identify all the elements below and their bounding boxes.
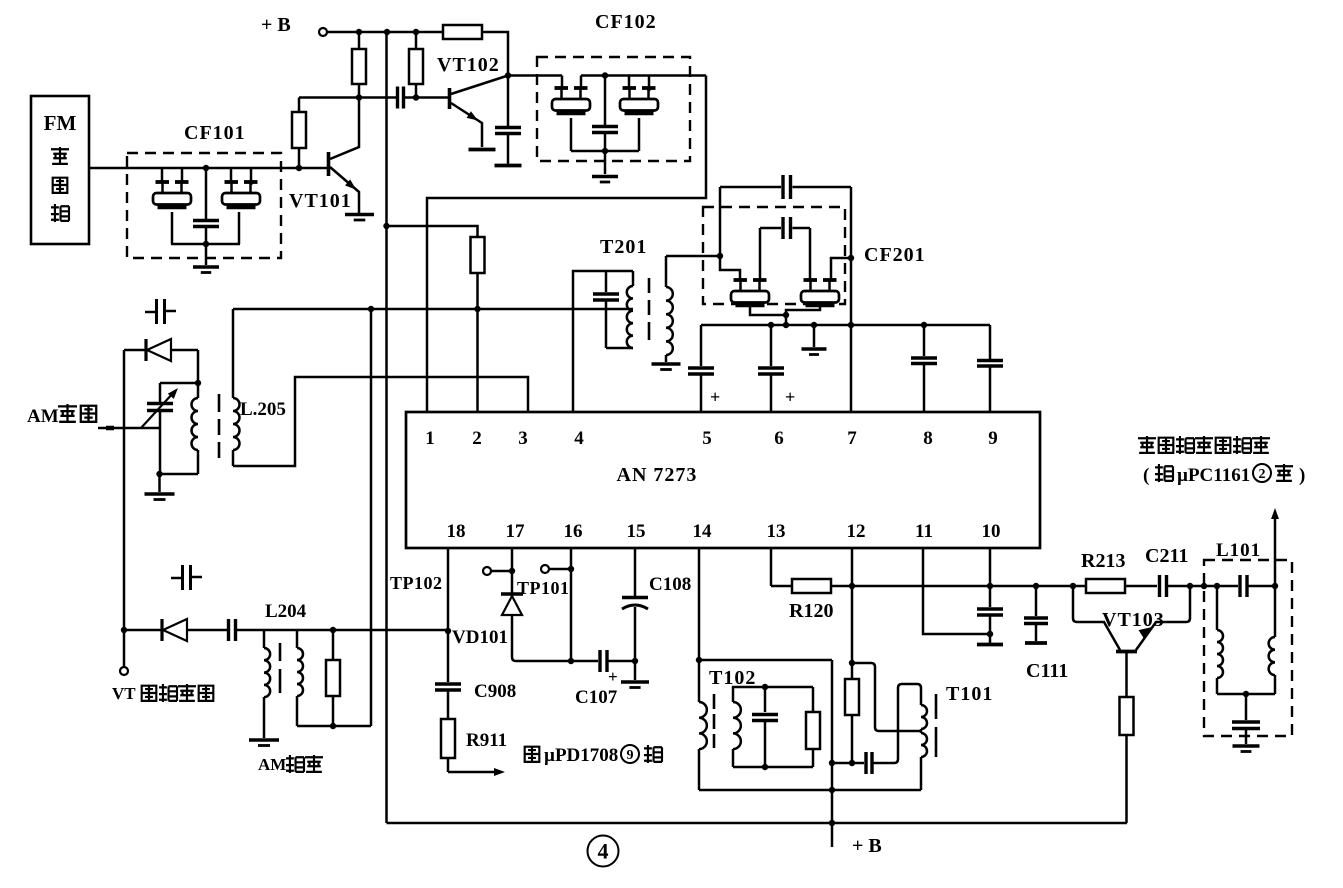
- resistor bias VT101 collector: [358, 32, 361, 49]
- svg-text:7: 7: [847, 428, 857, 449]
- junction: [413, 94, 419, 100]
- junction: [829, 760, 835, 766]
- wire decoupling rail: [701, 324, 990, 327]
- svg-text:4: 4: [574, 428, 584, 449]
- svg-text:(: (: [1143, 465, 1149, 486]
- junction: [602, 72, 608, 78]
- wire +B branch vertical: [831, 660, 834, 847]
- ground below cap: [495, 164, 522, 168]
- capacitor VT102 emitter bypass: [507, 76, 510, 127]
- filter CF102 box: [537, 57, 690, 161]
- resistor VT101 base bias: [292, 112, 306, 148]
- svg-text:+ B: + B: [852, 835, 882, 857]
- svg-text:VT103: VT103: [1102, 609, 1165, 631]
- junction: [1201, 583, 1207, 589]
- svg-text:9: 9: [627, 748, 634, 763]
- wire pin11: [923, 548, 990, 634]
- svg-text:16: 16: [564, 521, 583, 542]
- junction: [330, 723, 336, 729]
- junction: [568, 566, 574, 572]
- svg-text:µPC1161: µPC1161: [1177, 465, 1250, 486]
- ground CF102: [604, 151, 607, 174]
- capacitor T201 tank: [605, 271, 608, 292]
- ground C108: [634, 661, 637, 680]
- diode AM upper: [124, 349, 146, 352]
- resistor VT103 emitter: [1120, 697, 1134, 735]
- junction: [156, 471, 162, 477]
- junction: [445, 628, 451, 634]
- capacitor electrolytic pin6: [770, 325, 773, 366]
- svg-text:4: 4: [598, 839, 609, 864]
- wire pin14: [698, 548, 701, 660]
- junction: [1070, 583, 1076, 589]
- inductor T201 secondary: [665, 256, 668, 287]
- svg-text:CF201: CF201: [864, 244, 926, 266]
- wire L204 bottom rail: [297, 725, 371, 728]
- wire CF102 bottom bar: [570, 118, 573, 151]
- svg-text:12: 12: [847, 521, 866, 542]
- wire collector-base line: [299, 96, 396, 99]
- junction: [413, 29, 419, 35]
- junction: [829, 787, 835, 793]
- wire pin17: [511, 548, 514, 593]
- junction: [203, 241, 209, 247]
- junction: [848, 255, 854, 261]
- wire AM antenna: [98, 427, 160, 430]
- junction VT102 collector: [505, 72, 511, 78]
- inductor T101 winding: [898, 684, 921, 705]
- capacitor trimmer float lower: [171, 577, 181, 580]
- resistor R911: [441, 719, 455, 758]
- capacitor C111: [1035, 586, 1038, 616]
- resistor R120: [771, 585, 792, 588]
- svg-text:15: 15: [627, 521, 646, 542]
- capacitor AM osc coupling: [227, 619, 230, 641]
- junction: [568, 658, 574, 664]
- wire CF201b bottom: [786, 306, 820, 325]
- svg-text:L.205: L.205: [240, 399, 286, 420]
- svg-text:L101: L101: [1216, 540, 1261, 561]
- wire T102 bottom rail: [699, 789, 921, 792]
- svg-text:): ): [1299, 465, 1305, 486]
- wire T201 tank top: [573, 271, 633, 412]
- svg-text:C211: C211: [1145, 545, 1188, 567]
- inductor T201 primary: [632, 271, 635, 286]
- wire CF201 input drop: [720, 256, 740, 280]
- wire tank bottom: [160, 473, 199, 476]
- wire T201 to CF201: [666, 255, 720, 258]
- svg-text:T102: T102: [709, 667, 756, 689]
- core L205: [218, 394, 221, 412]
- svg-text:R120: R120: [789, 600, 833, 622]
- svg-text:VD101: VD101: [452, 627, 508, 648]
- inductor T102 secondary: [733, 687, 813, 702]
- capacitor pin8: [923, 325, 926, 356]
- capacitor L101 top: [1238, 575, 1241, 597]
- wire diode corner: [197, 350, 200, 383]
- wire L101 bottom: [1217, 693, 1275, 696]
- wire +B long vertical: [385, 32, 388, 823]
- capacitor electrolytic pin5: [700, 325, 703, 366]
- svg-text:17: 17: [506, 521, 526, 542]
- inductor L205 primary: [197, 383, 200, 398]
- filter element CF102a: [561, 76, 564, 89]
- svg-text:C111: C111: [1026, 660, 1068, 682]
- junction: [356, 94, 362, 100]
- wire pin18: [447, 548, 450, 682]
- capacitor C908: [435, 682, 461, 685]
- svg-text:TP102: TP102: [390, 573, 443, 593]
- diode AM lower: [160, 619, 163, 641]
- svg-text:11: 11: [915, 521, 933, 542]
- resistor T102 damping: [812, 687, 815, 712]
- junction: [811, 322, 817, 328]
- wire bias feedback: [298, 98, 301, 113]
- capacitor T102 tank: [764, 687, 767, 712]
- junction: [987, 583, 993, 589]
- svg-text:1: 1: [425, 428, 435, 449]
- junction: [509, 568, 515, 574]
- wire CF102 input: [508, 74, 562, 77]
- inductor L204 primary: [263, 630, 266, 648]
- junction: [330, 627, 336, 633]
- junction: [849, 760, 855, 766]
- wire L205 top to T201: [233, 308, 633, 311]
- svg-text:T101: T101: [946, 683, 993, 705]
- svg-text:10: 10: [982, 521, 1001, 542]
- transistor VT101: [327, 152, 331, 176]
- junction: [987, 631, 993, 637]
- diode VD101: [501, 592, 523, 595]
- capacitor L101 bottom: [1245, 694, 1248, 720]
- svg-text:FM: FM: [44, 111, 77, 135]
- svg-text:AM: AM: [27, 406, 59, 427]
- junction: [829, 820, 835, 826]
- terminal VT tuning voltage: [120, 667, 128, 675]
- wire FM output: [89, 167, 328, 170]
- wire CF201 output: [831, 258, 851, 280]
- op-amp IC AN7273 body: [406, 412, 1040, 548]
- junction: [696, 657, 702, 663]
- core T101: [935, 694, 938, 719]
- svg-text:+: +: [608, 667, 618, 686]
- svg-text:C107: C107: [575, 687, 618, 708]
- svg-text:AN 7273: AN 7273: [617, 464, 698, 486]
- capacitor CF102 center: [604, 76, 607, 126]
- junction: [848, 322, 854, 328]
- wire CF101 bottom bar: [171, 212, 174, 244]
- ground VT101 emitter: [345, 213, 374, 217]
- filter element CF101b: [230, 168, 233, 182]
- inductor L101 left: [1216, 586, 1219, 630]
- svg-text:µPD1708: µPD1708: [544, 745, 618, 766]
- svg-text:8: 8: [923, 428, 933, 449]
- transistor VT103: [1073, 586, 1120, 650]
- junction: [783, 312, 789, 318]
- wire resistor to VT102 collector node: [482, 32, 508, 75]
- svg-text:CF102: CF102: [595, 11, 657, 33]
- junction: [768, 322, 774, 328]
- wire pin2: [476, 309, 479, 412]
- junction: [849, 583, 855, 589]
- capacitor trimmer float upper: [145, 311, 155, 314]
- svg-text:3: 3: [518, 428, 528, 449]
- svg-text:14: 14: [693, 521, 713, 542]
- filter CF101 box: [127, 153, 281, 258]
- inductor L204 secondary: [296, 630, 299, 648]
- svg-text:+: +: [785, 387, 795, 407]
- svg-text:6: 6: [774, 428, 784, 449]
- svg-text:R213: R213: [1081, 550, 1125, 572]
- wire pin12: [851, 548, 854, 663]
- ground T201 secondary: [652, 362, 681, 366]
- transistor VT102: [448, 88, 452, 109]
- capacitor pin9: [989, 325, 992, 359]
- wire T102 top rail: [699, 659, 832, 662]
- junction: [1033, 583, 1039, 589]
- svg-text:AM: AM: [258, 755, 286, 774]
- junction: [849, 660, 855, 666]
- capacitor C211: [1158, 575, 1161, 597]
- core L204: [279, 643, 282, 661]
- resistor pin2 feed: [387, 226, 478, 237]
- junction: [717, 253, 723, 259]
- resistor L204 damping: [332, 630, 335, 660]
- junction: [1214, 583, 1220, 589]
- junction: [921, 322, 927, 328]
- junction: [1243, 691, 1249, 697]
- junction: [384, 29, 390, 35]
- capacitor CF101 center: [205, 168, 208, 219]
- ground L101: [1233, 744, 1260, 748]
- wire T201 tank bottom: [606, 347, 633, 350]
- wire pin15: [634, 548, 637, 596]
- wire VT tuning vertical: [123, 350, 126, 667]
- filter element CF201b: [801, 280, 839, 305]
- wire CF201a bottom: [750, 306, 786, 315]
- wire pin16: [570, 548, 573, 661]
- label to uPD1708 pin9: [525, 747, 540, 762]
- svg-text:TP101: TP101: [517, 578, 570, 598]
- junction: [1272, 583, 1278, 589]
- terminal TP102: [483, 567, 491, 575]
- capacitor variable tuning: [159, 383, 162, 402]
- svg-text:5: 5: [702, 428, 712, 449]
- wire T102 tank bottom: [733, 766, 813, 769]
- capacitor coupling C to VT102: [396, 87, 399, 109]
- resistor pin12: [851, 663, 854, 679]
- core T102: [713, 694, 716, 709]
- wire R911 output arrow: [448, 771, 497, 774]
- terminal +B: [319, 28, 327, 36]
- ground L204: [249, 738, 279, 742]
- svg-text:2: 2: [1259, 467, 1266, 482]
- junction: [632, 658, 638, 664]
- junction VT101 base: [296, 165, 302, 171]
- svg-text:VT102: VT102: [437, 54, 500, 76]
- svg-text:T201: T201: [600, 236, 647, 258]
- label stereo composite signal: [1138, 436, 1156, 454]
- capacitor pin10: [989, 586, 992, 607]
- junction: [121, 627, 127, 633]
- label page number 4: [588, 836, 619, 867]
- capacitor C107: [598, 650, 601, 672]
- filter element CF102b: [628, 76, 631, 89]
- wire CF102 output loop: [427, 76, 706, 413]
- junction: [203, 165, 209, 171]
- inductor T102 primary: [698, 660, 701, 702]
- wire +B rail: [327, 31, 443, 34]
- wire pin10: [989, 548, 992, 586]
- inductor L101 right: [1274, 586, 1277, 637]
- capacitor CF201 bridge: [759, 228, 762, 279]
- wire CF102 top rail: [581, 74, 706, 77]
- junction: [783, 322, 789, 328]
- capacitor CF201 feedback: [719, 187, 722, 256]
- junction: [195, 380, 201, 386]
- junction: [602, 148, 608, 154]
- svg-text:C108: C108: [649, 574, 691, 595]
- filter L101 box: [1204, 560, 1292, 736]
- ground rail: [813, 325, 816, 347]
- resistor bias VT102 base: [415, 32, 418, 49]
- svg-text:13: 13: [767, 521, 786, 542]
- wire L204 riser: [370, 309, 373, 726]
- junction: [762, 684, 768, 690]
- junction: [474, 306, 480, 312]
- resistor R213: [1086, 579, 1125, 593]
- wire CF201 right vertical pin7: [850, 187, 853, 412]
- svg-text:VT: VT: [112, 684, 136, 703]
- junction: [762, 764, 768, 770]
- junction: [383, 223, 389, 229]
- ground pin10 cap: [977, 643, 1003, 647]
- svg-text:9: 9: [988, 428, 998, 449]
- ground tuning tank: [158, 474, 161, 492]
- wire VD101 to C107: [512, 657, 598, 661]
- ground VT102 emitter: [469, 148, 496, 152]
- ground CF101: [205, 244, 208, 265]
- svg-text:L204: L204: [265, 601, 307, 622]
- capacitor C108: [622, 596, 648, 599]
- svg-text:+ B: + B: [261, 14, 291, 36]
- capacitor T101 coupling: [832, 762, 864, 765]
- svg-text:2: 2: [472, 428, 482, 449]
- svg-text:C908: C908: [474, 681, 516, 702]
- junction: [1187, 583, 1193, 589]
- core T201: [648, 278, 651, 293]
- wire bottom rail: [387, 822, 1128, 825]
- wire tank top: [160, 382, 198, 385]
- wire to diode AM lower: [124, 629, 161, 632]
- wire pin13: [770, 548, 773, 586]
- svg-text:R911: R911: [466, 730, 507, 751]
- junction: [356, 29, 362, 35]
- wire T101 tap: [852, 663, 921, 731]
- filter CF201 box: [703, 207, 845, 304]
- wire cap to VT102 base: [405, 96, 449, 99]
- wire secondary to pin3: [233, 377, 528, 466]
- wire stereo output arrow: [1274, 516, 1277, 586]
- terminal TP101: [541, 565, 549, 573]
- svg-text:18: 18: [447, 521, 466, 542]
- svg-text:CF101: CF101: [184, 122, 246, 144]
- svg-text:+: +: [710, 387, 720, 407]
- svg-text:VT101: VT101: [289, 190, 352, 212]
- inductor L205 secondary: [232, 309, 235, 398]
- resistor top horizontal: [443, 25, 482, 39]
- block FM tuner head: [31, 96, 89, 244]
- filter element CF101a: [161, 168, 164, 182]
- filter element CF201a: [731, 280, 769, 305]
- junction: [368, 306, 374, 312]
